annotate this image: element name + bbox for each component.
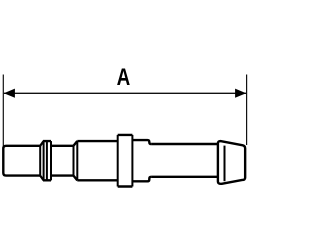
extension line right bbox=[246, 75, 248, 146]
main body top/bottom bbox=[77, 141, 117, 180]
flange right edge bbox=[131, 135, 133, 187]
plug stem (tip) bbox=[3, 146, 40, 176]
groove body top/bottom bbox=[51, 146, 74, 176]
hose barb cone bbox=[218, 141, 245, 184]
stem end edge bbox=[39, 146, 41, 176]
hose tube top/bottom bbox=[151, 144, 218, 177]
arrowhead left bbox=[4, 89, 15, 98]
dimension line A bbox=[4, 92, 246, 94]
groove body right edge bbox=[73, 146, 75, 176]
barb inner edge bbox=[224, 146, 226, 182]
collar cone slants bbox=[40, 141, 43, 180]
step collar top with shoulder bbox=[132, 140, 151, 144]
collar band left edge bbox=[43, 141, 45, 180]
chamfer slants bbox=[74, 141, 78, 180]
flange top/bottom bbox=[118, 135, 133, 187]
arrowhead right bbox=[235, 89, 246, 98]
collar band outline bbox=[43, 141, 51, 180]
collar inner edge bbox=[46, 141, 48, 180]
svg-text:A: A bbox=[117, 63, 131, 91]
extension line left bbox=[2, 75, 4, 147]
main body left edge bbox=[76, 141, 78, 180]
flange left edge bbox=[117, 135, 119, 187]
collar right edge bbox=[50, 141, 52, 180]
step collar bottom with shoulder bbox=[132, 177, 151, 182]
